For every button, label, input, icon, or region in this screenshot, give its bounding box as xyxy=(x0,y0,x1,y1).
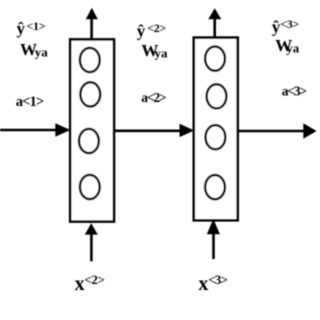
input arrow x<2> head xyxy=(85,223,98,234)
cell 1 unit circle 2 xyxy=(80,82,100,106)
svg-text:ya: ya xyxy=(155,46,169,61)
cell 2 unit circle 1 xyxy=(205,47,225,71)
svg-text:a<1>: a<1> xyxy=(16,94,44,110)
svg-text:<3>: <3> xyxy=(208,272,227,287)
output arrow y2 shaft xyxy=(213,19,216,38)
svg-text:ŷ: ŷ xyxy=(137,21,146,40)
svg-text:ŷ: ŷ xyxy=(17,19,26,38)
output arrow y2 head xyxy=(208,8,221,19)
output wire a<3> xyxy=(238,130,304,133)
svg-text:<3>: <3> xyxy=(280,17,299,31)
input arrow x<2> shaft xyxy=(90,234,93,261)
wire a<2> cell1 to cell2 xyxy=(114,130,180,133)
svg-text:<2>: <2> xyxy=(84,272,104,287)
output arrow y1 shaft xyxy=(90,19,93,40)
RNN cell 1 box xyxy=(70,39,114,221)
cell 1 unit circle 1 xyxy=(80,48,100,72)
svg-text:x: x xyxy=(198,273,208,295)
input wire a<1> xyxy=(0,129,56,132)
output arrow y1 head xyxy=(86,8,98,19)
cell 2 unit circle 3 xyxy=(206,125,226,149)
svg-text:a<2>: a<2> xyxy=(141,90,166,105)
svg-text:ya: ya xyxy=(35,45,49,60)
cell 1 unit circle 3 xyxy=(79,129,99,153)
cell 1 unit circle 4 xyxy=(80,175,100,199)
arrowhead a<3> xyxy=(303,123,316,138)
svg-text:<1>: <1> xyxy=(27,19,46,33)
svg-text:a<3>: a<3> xyxy=(282,83,307,98)
svg-text:<2>: <2> xyxy=(147,21,166,35)
cell 2 unit circle 4 xyxy=(205,175,225,199)
cell 2 unit circle 2 xyxy=(207,84,227,108)
input arrow x<3> shaft xyxy=(212,234,215,259)
input arrow x<3> head xyxy=(207,219,220,234)
arrowhead into cell 2 xyxy=(180,124,195,137)
RNN cell 2 box xyxy=(194,38,238,221)
arrowhead into cell 1 xyxy=(55,123,70,137)
svg-text:x: x xyxy=(75,273,85,295)
svg-text:ya: ya xyxy=(286,41,300,56)
